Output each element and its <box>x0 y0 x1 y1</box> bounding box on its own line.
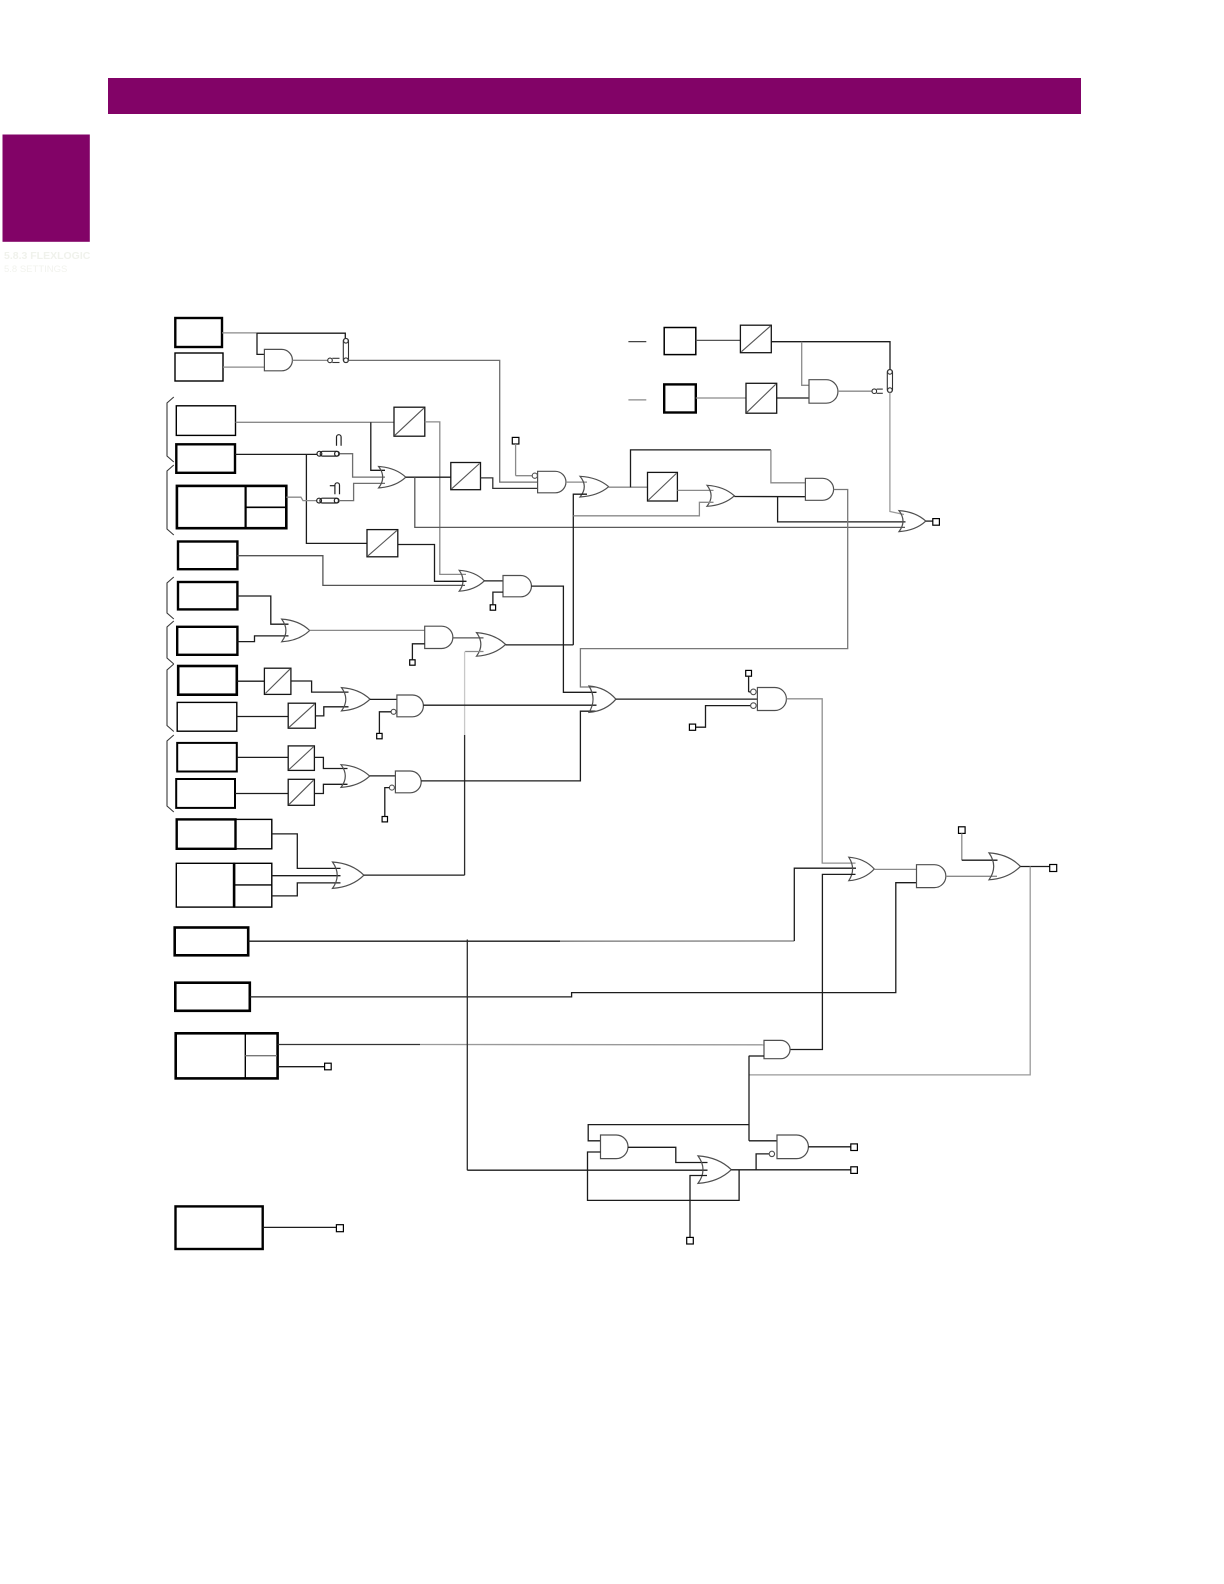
wire OR2 output to TF4 with feedback loop to AND3 <box>609 486 648 488</box>
wire OR-D to NAND-A <box>370 698 397 700</box>
transfer block TF6 <box>746 383 777 413</box>
wire pill P1 to AND2 chain <box>349 360 538 482</box>
or gate OR-H <box>459 570 484 591</box>
chapter tab square <box>3 135 90 242</box>
wire TF1 output down to OR-H <box>425 422 466 575</box>
transfer block TF9 <box>288 746 314 771</box>
or gate OR-R <box>899 511 926 532</box>
or gate OR-G <box>849 857 875 881</box>
wire T5 to AND4 <box>412 644 424 660</box>
wire OR-F output to vertical net <box>364 874 465 876</box>
input stub dash2 <box>628 399 646 401</box>
wire T1 to AND2 bubble <box>515 444 517 476</box>
brace group 4 <box>167 621 174 664</box>
wire OR-R output <box>926 520 933 522</box>
svg-text:5.8 SETTINGS: 5.8 SETTINGS <box>4 264 67 275</box>
wire BP1 to OR-F <box>272 834 341 869</box>
setting block B1 <box>175 318 222 347</box>
wire OR-H output to AND-H <box>484 580 503 582</box>
wire B8 to OR-C <box>237 636 288 642</box>
wire AND3 output down-left to OR-I <box>580 490 847 688</box>
wire BP2 bottom cell to OR-F <box>272 883 341 896</box>
setting block B12 <box>176 779 235 808</box>
and gate AND1 <box>264 349 292 370</box>
wire OR-S feedback down to latch net <box>749 867 1030 1075</box>
brace group 1 <box>167 397 174 462</box>
wire B3 to TF1 with branch to OR-A <box>236 421 395 423</box>
wire pill P2 down to OR-R <box>890 393 904 515</box>
wire long vertical net OR-B input from OR-F <box>465 651 483 653</box>
wire B6 to OR-H <box>237 556 465 586</box>
terminal T3 <box>746 670 752 676</box>
wire contact K2 to OR-A <box>340 454 385 477</box>
transfer block TF2 <box>451 463 481 490</box>
terminal T7 <box>382 817 387 822</box>
wire B9 to TF7 <box>237 680 265 682</box>
contact symbol K4 <box>872 389 883 394</box>
wire OR5 output to AND3 and OR-R <box>734 496 805 498</box>
setting block B7 <box>178 582 237 609</box>
setting block BP2 with split cells <box>176 863 234 907</box>
or gate OR-S <box>989 853 1020 880</box>
wire OR-B output to vertical net <box>506 644 574 646</box>
brace group 3 <box>167 577 174 619</box>
terminal T4 <box>689 724 695 730</box>
setting block B10 <box>177 702 237 731</box>
wire SQ2 to TF6 <box>696 397 746 399</box>
wire TF9 to OR-E <box>314 757 347 768</box>
transfer block TF1 <box>394 407 425 436</box>
wire B2 to AND1 <box>223 366 264 368</box>
setting block BP1 with extension <box>177 819 236 848</box>
wire B7 to OR-C <box>237 596 288 624</box>
wire B13 long line to OR-G <box>248 940 560 942</box>
wire T8 to OR-S <box>961 833 963 860</box>
timer pill P1 <box>343 338 348 362</box>
and gate AND-R <box>809 380 838 404</box>
transfer block TF8 <box>288 703 315 728</box>
wire TF10 to OR-E <box>314 784 347 793</box>
and gate AND2 with inverted input <box>538 471 566 493</box>
svg-text:5.8.3 FLEXLOGIC: 5.8.3 FLEXLOGIC <box>4 250 91 262</box>
wire OR-A output long line <box>406 476 451 478</box>
wire AND-R output to contact K4 <box>838 390 872 392</box>
header bar <box>108 78 1081 114</box>
or gate OR-B <box>477 633 506 657</box>
wire OR-L bottom input from terminal T13 <box>690 1176 707 1238</box>
or gate OR-D <box>342 688 371 711</box>
wire TF7 to OR-D <box>291 681 349 692</box>
wire B12 to TF10 <box>235 793 288 795</box>
setting block B9 <box>178 666 237 695</box>
wire TF8 to OR-D <box>315 707 348 716</box>
wire TF5 output to AND-R and pill P2 <box>771 342 890 370</box>
and gate NAND2 with two inverted inputs <box>757 688 786 711</box>
and gate NAND-A with inverted input <box>397 695 424 717</box>
terminal T12 <box>851 1167 858 1174</box>
wire OR-G to AND5 <box>874 868 916 870</box>
wire TF3 chain: B4 branch through TF3 to OR-H <box>367 530 398 557</box>
wire NAND-L output <box>808 1146 850 1148</box>
wire TF4 to OR5 <box>677 489 713 491</box>
terminal T14 <box>336 1225 343 1232</box>
contact symbol K1 <box>328 358 340 363</box>
or gate OR-I <box>589 686 616 712</box>
wire T3 to NAND2 bubble <box>748 676 750 692</box>
wire NAND-A output to OR-I <box>423 704 596 706</box>
wire B4 to contact K2 with branch to TF3 <box>235 453 317 455</box>
terminal T11 <box>851 1144 858 1151</box>
wire B1 to AND1 and pill P1 top <box>222 332 257 334</box>
wire NAND2 output down to OR-G <box>786 699 855 863</box>
wire branch to NAND-L bubble <box>756 1154 769 1170</box>
wire B10 to TF8 <box>237 716 288 718</box>
wire BP2 top cell to OR-F <box>272 875 341 877</box>
and gate AND-L1 <box>601 1135 629 1159</box>
setting block B3 <box>176 406 235 436</box>
wire B11 to TF9 <box>237 756 288 758</box>
transfer block TF7 <box>264 668 291 694</box>
operator mark for K2 <box>337 435 342 446</box>
terminal T5 <box>410 660 415 665</box>
wire AND2 to OR2 <box>566 481 587 483</box>
contact symbol K3 <box>317 498 339 503</box>
wire B14 long line to AND5 <box>250 883 917 997</box>
or gate OR-L <box>698 1156 731 1184</box>
wire from B13 line down to OR-L mid input <box>466 940 468 1171</box>
and gate NAND-B with inverted input <box>395 771 421 793</box>
operand square SQ2 <box>664 384 696 412</box>
wire AND-L2 output up to OR-G <box>790 874 856 1049</box>
wire TF2 to AND2 <box>481 478 538 489</box>
wire vertical net from OR-B output to OR2 and OR5 <box>573 494 587 645</box>
wire B5 top cell to contact K3 <box>286 497 316 500</box>
terminal T10 <box>325 1063 332 1070</box>
input stub dash1 <box>628 341 646 343</box>
transfer block TF4 <box>648 472 678 501</box>
setting block B16 <box>176 1206 263 1249</box>
wire SQ1 to TF5 <box>696 339 741 341</box>
wire AND-L1 output to OR-L <box>628 1147 708 1162</box>
wire contact K3 to OR-A <box>339 483 385 500</box>
or gate OR2 <box>580 476 609 497</box>
transfer block TF5 <box>740 325 771 353</box>
transfer block TF10 <box>288 779 314 805</box>
wire B15 bottom cell to terminal <box>278 1066 325 1068</box>
or gate OR-E <box>341 765 370 788</box>
brace group 2 <box>167 465 174 535</box>
terminal T6 <box>377 733 382 738</box>
terminal T1 <box>512 437 519 444</box>
setting block B8 <box>177 627 237 655</box>
setting block B4 <box>176 444 235 473</box>
wire OR-I output to NAND2 <box>616 698 758 700</box>
setting block B11 <box>177 743 237 772</box>
wire net749 spine <box>748 1056 750 1141</box>
wire AND-H output to OR-I <box>531 586 596 692</box>
terminal T8 <box>959 827 966 834</box>
wire B16 to terminal <box>263 1226 337 1228</box>
and gate AND-H <box>503 576 531 597</box>
wire T6 to NAND-A bubble <box>379 712 391 734</box>
wire T7 to NAND-B bubble <box>385 788 390 817</box>
setting block B5 with split cells <box>177 486 286 528</box>
wire latch feedback to AND-L1 <box>588 1152 740 1200</box>
wire OR-L output with branches <box>731 1169 851 1171</box>
wire AND1 output to contact <box>292 359 327 361</box>
wire OR-S output <box>1020 866 1049 868</box>
setting block B13 <box>175 928 249 956</box>
contact symbol K2 <box>317 451 339 456</box>
and gate AND5 <box>917 865 946 888</box>
wire OR-C output to AND4 <box>310 629 425 631</box>
terminal T13 <box>687 1237 694 1244</box>
and gate AND-L2 <box>764 1040 790 1058</box>
wire OR-E to NAND-B <box>370 775 396 777</box>
brace group 6 <box>167 735 174 812</box>
wire AND4 to OR-B <box>453 637 484 639</box>
or gate OR-A <box>379 467 406 488</box>
or gate OR5 <box>707 485 734 506</box>
terminal T2 <box>933 519 940 526</box>
and gate NAND-L with inverted input <box>777 1135 808 1159</box>
or gate OR-C <box>282 619 310 642</box>
terminal T9 <box>1050 865 1057 872</box>
wire NAND-B output up to OR-I <box>421 711 595 781</box>
setting block B14 <box>175 983 250 1011</box>
brace group 5 <box>167 664 174 732</box>
wire B15 top cell long line to AND-L2 <box>278 1044 420 1046</box>
and gate AND3 <box>805 478 833 500</box>
wire T4 to NAND2 bubble2 <box>696 706 751 728</box>
setting block B15 with split cells <box>176 1033 278 1078</box>
setting block B6 <box>178 542 237 570</box>
terminal T-H <box>490 605 495 610</box>
wire AND5 to OR-S <box>946 875 997 877</box>
setting block B2 <box>175 353 223 381</box>
and gate AND4 <box>425 626 453 648</box>
operand square SQ1 <box>664 328 696 355</box>
wire TF6 to AND-R <box>777 397 809 399</box>
or gate OR-F <box>333 862 364 888</box>
operator mark for K3 <box>335 483 340 494</box>
wire T-H to AND-H <box>493 592 503 605</box>
timer pill P2 <box>887 370 892 393</box>
